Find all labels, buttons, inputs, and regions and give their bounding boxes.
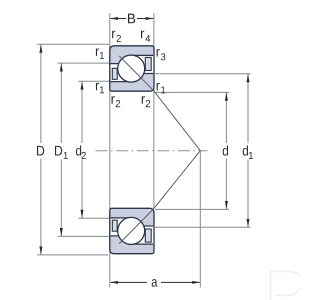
label B — [128, 14, 135, 24]
bottom bearing right gap (white) — [132, 227, 154, 244]
watermark D bottom-right — [271, 272, 304, 300]
label d1 — [243, 145, 253, 159]
a dimension — [111, 281, 200, 283]
bottom contact diagonal through ball — [119, 209, 154, 244]
contact diagonal through ball — [119, 56, 154, 91]
label a — [152, 279, 158, 287]
vertical extension line apex->a — [199, 151, 201, 288]
D dimension line — [37, 44, 109, 255]
contact line lower (apex to bottom bearing) — [154, 151, 201, 209]
left gap (white) — [111, 64, 132, 81]
label D1 — [55, 146, 68, 159]
d2 dimension line — [78, 81, 109, 218]
bottom ball — [118, 217, 145, 244]
bottom bearing left gap (white) — [111, 219, 132, 236]
label r2 bottom-right — [142, 96, 150, 107]
bottom bearing ring body — [110, 208, 154, 253]
right shoulder rect — [145, 57, 151, 70]
label d — [223, 145, 228, 155]
vertical extension line left (x=109.8, B/a) — [109, 13, 111, 288]
diagonal inside ball — [122, 59, 141, 78]
label r1 right — [157, 83, 166, 94]
label D — [37, 146, 44, 156]
bottom diagonal inside ball — [122, 222, 141, 241]
outer ring + inner ring body — [110, 46, 154, 91]
label r3 right — [157, 49, 166, 60]
bottom bearing right shoulder rect — [145, 229, 151, 242]
label r1 left upper — [96, 48, 104, 58]
label d2 — [76, 145, 86, 159]
label r4 top-right — [141, 31, 150, 42]
label r2 bottom-left — [112, 96, 121, 107]
right gap (white) — [132, 56, 154, 73]
label r2 top-left — [112, 31, 121, 42]
d1 dimension line — [155, 74, 251, 228]
ball — [118, 55, 145, 82]
d dimension line — [155, 92, 229, 209]
B dimension — [111, 18, 154, 20]
left shoulder rect — [112, 68, 117, 79]
label r1 left lower — [96, 83, 104, 94]
bottom bearing left shoulder rect — [112, 220, 117, 231]
D1 dimension line — [58, 63, 109, 236]
centerline (dash-dot) — [96, 150, 208, 152]
contact line upper (bearing to apex) — [154, 91, 201, 151]
vertical extension line right (x=153.9, B) — [153, 13, 155, 208]
